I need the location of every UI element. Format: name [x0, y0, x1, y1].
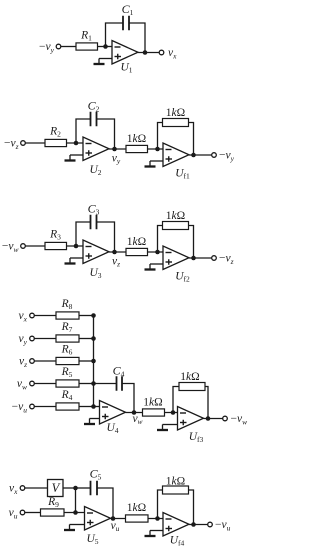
svg-text:U5: U5	[86, 533, 98, 546]
svg-text:−vu: −vu	[12, 401, 28, 414]
svg-text:R6: R6	[61, 344, 73, 357]
svg-text:U2: U2	[89, 164, 101, 177]
svg-text:R3: R3	[49, 229, 61, 242]
svg-text:vw: vw	[17, 378, 27, 391]
svg-text:1kΩ: 1kΩ	[180, 371, 199, 383]
svg-text:−vy: −vy	[219, 150, 235, 163]
svg-text:R2: R2	[49, 126, 61, 139]
svg-text:vz: vz	[19, 356, 27, 369]
svg-text:C1: C1	[122, 2, 134, 17]
svg-text:1kΩ: 1kΩ	[143, 397, 162, 409]
svg-text:R4: R4	[61, 389, 73, 402]
svg-text:1kΩ: 1kΩ	[127, 502, 146, 514]
svg-text:R5: R5	[61, 366, 73, 379]
svg-text:−vu: −vu	[215, 519, 231, 532]
svg-text:vu: vu	[9, 507, 18, 520]
svg-text:Uf4: Uf4	[170, 535, 185, 548]
svg-text:−vw: −vw	[2, 241, 19, 254]
svg-text:vx: vx	[168, 47, 177, 60]
svg-text:−vz: −vz	[219, 253, 234, 266]
svg-text:R9: R9	[47, 496, 59, 509]
svg-text:−vz: −vz	[4, 138, 19, 151]
svg-text:1kΩ: 1kΩ	[166, 107, 185, 119]
svg-text:Uf2: Uf2	[175, 271, 190, 284]
svg-text:R8: R8	[61, 298, 73, 311]
svg-text:vu: vu	[111, 520, 120, 533]
svg-text:C2: C2	[88, 99, 100, 114]
svg-text:vy: vy	[112, 153, 121, 166]
svg-text:vz: vz	[112, 256, 120, 269]
svg-text:R7: R7	[61, 321, 73, 334]
svg-text:C5: C5	[90, 467, 102, 482]
svg-text:Uf1: Uf1	[175, 168, 190, 181]
svg-text:1kΩ: 1kΩ	[127, 133, 146, 145]
svg-text:R1: R1	[80, 30, 92, 43]
svg-text:1kΩ: 1kΩ	[127, 236, 146, 248]
svg-text:C3: C3	[88, 202, 100, 217]
svg-text:−vy: −vy	[39, 41, 55, 54]
svg-text:C4: C4	[113, 364, 125, 379]
svg-text:U4: U4	[106, 422, 118, 435]
svg-text:vy: vy	[19, 333, 28, 346]
svg-text:vw: vw	[132, 413, 142, 426]
svg-text:U3: U3	[89, 267, 101, 280]
svg-text:U1: U1	[120, 62, 132, 75]
svg-text:vx: vx	[9, 483, 18, 496]
svg-text:−vw: −vw	[231, 413, 248, 426]
svg-text:1kΩ: 1kΩ	[166, 210, 185, 222]
svg-text:vx: vx	[19, 310, 28, 323]
svg-text:Uf3: Uf3	[189, 431, 204, 444]
svg-text:1kΩ: 1kΩ	[166, 476, 185, 488]
